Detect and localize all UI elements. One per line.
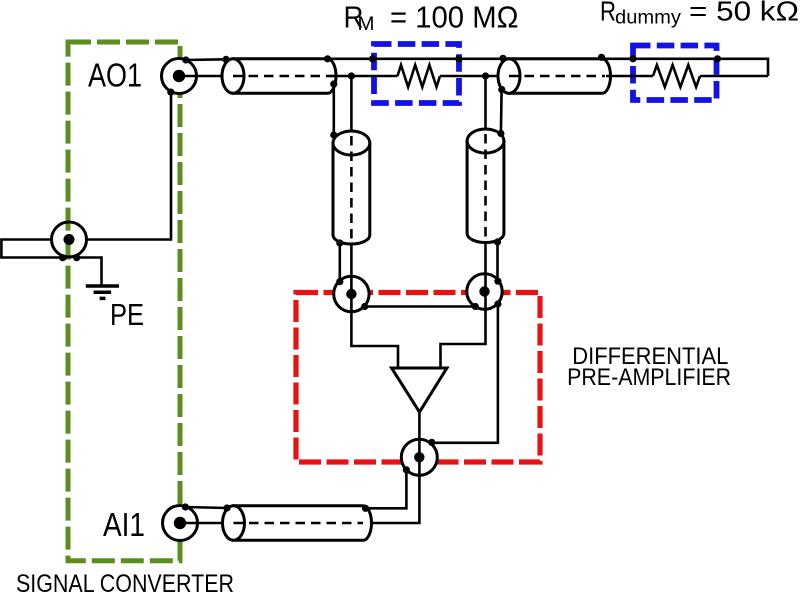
svg-text:dummy: dummy [615, 8, 682, 29]
svg-text:= 50 kΩ: = 50 kΩ [689, 0, 799, 26]
svg-text:AI1: AI1 [103, 506, 145, 543]
svg-text:PE: PE [110, 297, 144, 332]
svg-text:AO1: AO1 [88, 57, 142, 94]
svg-text:M: M [358, 14, 375, 35]
svg-text:PRE-AMPLIFIER: PRE-AMPLIFIER [567, 364, 731, 391]
svg-text:= 100 MΩ: = 100 MΩ [390, 0, 519, 34]
svg-text:SIGNAL CONVERTER: SIGNAL CONVERTER [16, 570, 234, 592]
svg-text:R: R [600, 0, 616, 26]
